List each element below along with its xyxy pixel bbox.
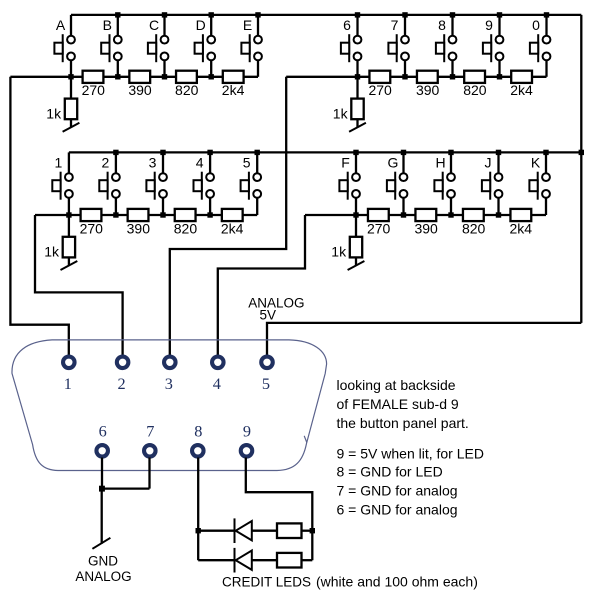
connector outline: small tick artifact on right slant — [304, 436, 307, 443]
svg-text:J: J — [485, 155, 492, 171]
junction: top bus at button 0 — [544, 12, 549, 17]
junction: analog bus at button 8 — [450, 74, 455, 79]
wire: 1k pulldown stem (row2-left) — [68, 215, 70, 265]
resistor 1k (row1-left) — [65, 99, 77, 120]
junction: top bus at button 2 — [113, 150, 118, 155]
wire: button C column (top contact) — [163, 15, 165, 40]
svg-text:ANALOG: ANALOG — [75, 569, 131, 584]
svg-text:0: 0 — [532, 17, 540, 33]
svg-text:7 = GND for analog: 7 = GND for analog — [337, 483, 458, 499]
wire: button B column (top contact) — [117, 15, 119, 40]
wire: button 1 column (bottom contact) — [68, 194, 70, 215]
junction: top bus at button 6 — [355, 12, 360, 17]
svg-text:3: 3 — [165, 374, 173, 393]
pushbutton 7 — [388, 34, 409, 62]
resistor 820 (row2-left) — [175, 209, 196, 221]
svg-text:2k4: 2k4 — [510, 82, 533, 98]
resistor 2k4 (row2-right) — [510, 209, 531, 221]
wire: button 1 column (top contact) — [68, 152, 70, 177]
junction: top bus at button G — [401, 150, 406, 155]
wire: pin7 to pin6 tie — [101, 487, 150, 489]
junction: LED left rail — [196, 528, 201, 533]
connector pin 1 — [63, 357, 75, 369]
wire: pin 8 LED left rail — [197, 458, 199, 561]
svg-text:1k: 1k — [46, 105, 62, 121]
wire: button F column (bottom contact) — [355, 194, 357, 215]
junction: row2 bus meets right rail — [579, 150, 584, 155]
wire: LED2 branch left — [198, 559, 234, 561]
wire: 1k pulldown stem (row1-left) — [70, 77, 72, 127]
svg-text:390: 390 — [127, 220, 151, 236]
svg-text:9 = 5V when lit, for LED: 9 = 5V when lit, for LED — [337, 445, 484, 461]
junction: top bus at button 7 — [402, 12, 407, 17]
resistor 270 (row2-right) — [368, 209, 389, 221]
svg-text:1k: 1k — [331, 244, 347, 260]
svg-text:9: 9 — [243, 421, 251, 440]
wire: button 7 column (top contact) — [404, 15, 406, 40]
wire: analog bus row1-left (to left rail) — [10, 76, 258, 78]
resistor 390 (row2-left) — [128, 209, 149, 221]
svg-text:270: 270 — [80, 220, 104, 236]
junction: top bus at button C — [162, 12, 167, 17]
wire: analog bus row2-left — [35, 214, 257, 216]
svg-text:1k: 1k — [333, 105, 349, 121]
svg-text:(white and 100 ohm each): (white and 100 ohm each) — [316, 574, 478, 590]
pushbutton 8 — [436, 34, 457, 62]
ground: analog ground slash (row2-right) — [348, 261, 365, 270]
wire: analog bus row1-right — [286, 76, 546, 78]
svg-text:7: 7 — [146, 421, 154, 440]
junction: top bus at button H — [448, 150, 453, 155]
wire: button A column (bottom contact) — [70, 56, 72, 76]
wire: button 0 column (top contact) — [545, 15, 547, 40]
svg-text:6: 6 — [99, 421, 107, 440]
wire: button C column (bottom contact) — [163, 56, 165, 76]
wire: 1k pulldown stem (row1-right) — [356, 77, 358, 127]
connector J1: female sub-d 9 outline (backside view) — [12, 340, 327, 471]
wire: pin 9 to LED right rail — [246, 458, 312, 561]
svg-text:D: D — [196, 17, 206, 33]
svg-text:2k4: 2k4 — [509, 220, 532, 236]
wire: button 2 column (bottom contact) — [115, 194, 117, 215]
pushbutton 5 — [241, 172, 262, 200]
junction: analog bus at button 2 — [113, 212, 118, 217]
wire: button A column (top contact) — [70, 15, 72, 40]
wire: +5V top bus row 1 — [71, 14, 581, 16]
svg-text:390: 390 — [416, 82, 440, 98]
wire: row2-left bus to pin 2 — [35, 215, 123, 356]
resistor 390 (row1-left) — [129, 71, 150, 83]
svg-text:6 = GND for analog: 6 = GND for analog — [337, 502, 458, 518]
junction: top bus at button 3 — [160, 150, 165, 155]
svg-text:1: 1 — [64, 374, 72, 393]
junction: analog bus at button 6 — [355, 74, 360, 79]
wire: pin 7 down — [148, 458, 150, 489]
svg-text:G: G — [388, 155, 399, 171]
svg-text:A: A — [56, 17, 66, 33]
wire: LED1 resistor to right rail — [302, 530, 313, 532]
junction: analog bus at button G — [401, 212, 406, 217]
resistor 270 (row1-right) — [369, 71, 390, 83]
svg-text:7: 7 — [391, 17, 399, 33]
resistor 270 (row2-left) — [81, 209, 102, 221]
svg-text:2k4: 2k4 — [221, 220, 244, 236]
pushbutton 1 — [52, 172, 73, 200]
resistor 2k4 (row1-left) — [223, 71, 244, 83]
pushbutton F — [339, 172, 360, 200]
svg-text:B: B — [103, 17, 112, 33]
junction: analog bus at button 9 — [497, 74, 502, 79]
resistor 390 (row2-right) — [415, 209, 436, 221]
pushbutton 4 — [194, 172, 215, 200]
wire: button E column (bottom contact) — [257, 56, 259, 76]
svg-text:390: 390 — [414, 220, 438, 236]
pushbutton D — [195, 34, 216, 62]
svg-text:5: 5 — [243, 155, 251, 171]
ground: GND ANALOG slash — [92, 538, 110, 549]
wire: pin 6 down — [101, 458, 103, 489]
connector pin 2 — [117, 357, 129, 369]
resistor 100 ohm (LED1) — [277, 523, 302, 538]
ground: analog ground slash (row1-right) — [349, 123, 366, 132]
svg-text:4: 4 — [213, 374, 221, 393]
wire: button F column (top contact) — [355, 152, 357, 177]
svg-text:C: C — [149, 17, 159, 33]
wire: button 3 column (bottom contact) — [162, 194, 164, 215]
junction: analog bus at button C — [162, 74, 167, 79]
svg-text:the button panel part.: the button panel part. — [337, 415, 469, 431]
wire: row1-right bus to pin 3 — [170, 77, 286, 356]
wire: button E column (top contact) — [257, 15, 259, 40]
wire: row1-left bus to pin 1 (left rail) — [10, 77, 68, 356]
wire: button D column (bottom contact) — [210, 56, 212, 76]
junction: LED right rail — [310, 528, 315, 533]
svg-text:GND: GND — [88, 554, 118, 569]
connector pin 4 — [212, 357, 224, 369]
wire: button 8 column (top contact) — [451, 15, 453, 40]
wire: button 6 column (top contact) — [356, 15, 358, 40]
resistor 1k (row1-right) — [351, 99, 363, 120]
junction: analog bus at button D — [209, 74, 214, 79]
connector pin 8 — [192, 445, 204, 457]
junction: top bus at button 8 — [450, 12, 455, 17]
pushbutton 3 — [146, 172, 167, 200]
svg-text:CREDIT LEDS: CREDIT LEDS — [222, 575, 311, 590]
junction: analog bus at button H — [448, 212, 453, 217]
junction: analog bus at button 7 — [402, 74, 407, 79]
wire: LED1 branch left — [198, 530, 234, 532]
wire: gnd analog stem — [101, 489, 103, 544]
svg-text:270: 270 — [368, 82, 392, 98]
svg-text:looking at backside: looking at backside — [337, 377, 456, 393]
junction: top bus at button E — [255, 12, 260, 17]
wire: button H column (bottom contact) — [450, 194, 452, 215]
svg-text:2: 2 — [118, 374, 126, 393]
svg-text:of FEMALE sub-d 9: of FEMALE sub-d 9 — [337, 396, 459, 412]
wire: LED2 resistor to right rail — [302, 559, 313, 561]
junction: top bus at button 5 — [255, 150, 260, 155]
wire: ANALOG 5V line to pin 5 — [267, 323, 581, 356]
svg-text:F: F — [341, 155, 350, 171]
wire: 1k pulldown stem (row2-right) — [355, 215, 357, 265]
svg-text:2: 2 — [102, 155, 110, 171]
resistor 820 (row1-right) — [464, 71, 485, 83]
junction: top bus at button F — [353, 150, 358, 155]
pushbutton E — [241, 34, 262, 62]
wire: button 2 column (top contact) — [115, 152, 117, 177]
svg-text:820: 820 — [174, 220, 198, 236]
svg-text:8: 8 — [438, 17, 446, 33]
junction: gnd analog node — [99, 486, 105, 492]
resistor 820 (row2-right) — [463, 209, 484, 221]
wire: button G column (bottom contact) — [402, 194, 404, 215]
resistor 1k (row2-right) — [350, 237, 362, 258]
resistor 270 (row1-left) — [83, 71, 104, 83]
junction: analog bus at button B — [115, 74, 120, 79]
pushbutton 9 — [483, 34, 504, 62]
LED D1 (white credit LED) — [235, 518, 252, 543]
wire: button 5 column (bottom contact) — [256, 194, 258, 215]
pushbutton A — [54, 34, 75, 62]
connector pin 9 — [241, 445, 253, 457]
wire: button 5 column (top contact) — [256, 152, 258, 177]
wire: button 0 column (bottom contact) — [545, 56, 547, 76]
pushbutton H — [434, 172, 455, 200]
svg-text:270: 270 — [367, 220, 391, 236]
svg-text:8: 8 — [194, 421, 202, 440]
note: pin function legend — [337, 445, 484, 517]
junction: analog bus at button 1 — [66, 212, 71, 217]
wire: button H column (top contact) — [450, 152, 452, 177]
wire: analog bus row2-right — [305, 214, 546, 216]
wire: button J column (top contact) — [497, 152, 499, 177]
connector pin 5 — [261, 357, 273, 369]
note: connector description text — [337, 377, 469, 431]
junction: analog bus at button F — [353, 212, 358, 217]
svg-text:390: 390 — [128, 82, 152, 98]
wire: +5V top bus row 2 — [69, 151, 581, 153]
resistor 1k (row2-left) — [63, 237, 75, 258]
pushbutton G — [387, 172, 408, 200]
wire: button 7 column (bottom contact) — [404, 56, 406, 76]
wire: LED1 to resistor — [251, 530, 277, 532]
svg-text:8 = GND for LED: 8 = GND for LED — [337, 464, 443, 480]
wire: button 6 column (bottom contact) — [356, 56, 358, 76]
junction: analog bus at button 4 — [207, 212, 212, 217]
svg-text:820: 820 — [462, 220, 486, 236]
svg-text:K: K — [531, 155, 541, 171]
wire: button D column (top contact) — [210, 15, 212, 40]
resistor 390 (row1-right) — [417, 71, 438, 83]
ground: analog ground slash (row2-left) — [61, 261, 78, 270]
connector pin 6 — [96, 445, 108, 457]
wire: button 9 column (top contact) — [498, 15, 500, 40]
pushbutton C — [148, 34, 169, 62]
junction: top bus at button D — [209, 12, 214, 17]
svg-text:ANALOG: ANALOG — [248, 295, 304, 310]
wire: button K column (bottom contact) — [545, 194, 547, 215]
pushbutton 0 — [530, 34, 550, 62]
svg-text:1: 1 — [55, 155, 63, 171]
junction: top bus at button B — [115, 12, 120, 17]
pushbutton K — [529, 172, 549, 200]
svg-text:1k: 1k — [44, 244, 60, 260]
wire: button K column (top contact) — [545, 152, 547, 177]
wire: button 4 column (top contact) — [209, 152, 211, 177]
resistor 820 (row1-left) — [176, 71, 197, 83]
svg-text:9: 9 — [485, 17, 493, 33]
resistor 2k4 (row2-left) — [222, 209, 243, 221]
pushbutton 6 — [341, 34, 362, 62]
junction: analog bus at button A — [68, 74, 73, 79]
svg-text:H: H — [435, 155, 445, 171]
connector pin 7 — [144, 445, 156, 457]
svg-text:4: 4 — [196, 155, 204, 171]
junction: top bus at button 9 — [497, 12, 502, 17]
svg-text:5V: 5V — [260, 308, 277, 323]
svg-text:820: 820 — [463, 82, 487, 98]
svg-text:5: 5 — [262, 374, 270, 393]
junction: analog bus at button J — [496, 212, 501, 217]
wire: button J column (bottom contact) — [497, 194, 499, 215]
svg-text:270: 270 — [82, 82, 106, 98]
wire: +5V right rail — [580, 15, 582, 323]
svg-text:3: 3 — [149, 155, 157, 171]
junction: top bus at button K — [543, 150, 548, 155]
wire: button G column (top contact) — [402, 152, 404, 177]
wire: button 8 column (bottom contact) — [451, 56, 453, 76]
svg-text:820: 820 — [175, 82, 199, 98]
wire: LED2 to resistor — [251, 559, 277, 561]
wire: button 4 column (bottom contact) — [209, 194, 211, 215]
resistor 100 ohm (LED2) — [277, 553, 302, 568]
wire: button 9 column (bottom contact) — [498, 56, 500, 76]
junction: top bus at button J — [496, 150, 501, 155]
wire: button 3 column (top contact) — [162, 152, 164, 177]
svg-text:6: 6 — [343, 17, 351, 33]
pushbutton B — [101, 34, 122, 62]
pushbutton 2 — [99, 172, 120, 200]
svg-text:E: E — [243, 17, 252, 33]
wire: row2-right bus to pin 4 — [218, 215, 305, 356]
LED D2 (white credit LED) — [235, 548, 252, 573]
ground: analog ground slash (row1-left) — [63, 123, 80, 132]
connector pin 3 — [164, 357, 176, 369]
pushbutton J — [482, 172, 503, 200]
junction: top bus at button 4 — [207, 150, 212, 155]
svg-text:2k4: 2k4 — [222, 82, 245, 98]
resistor 2k4 (row1-right) — [511, 71, 532, 83]
wire: button B column (bottom contact) — [117, 56, 119, 76]
junction: analog bus at button 3 — [160, 212, 165, 217]
